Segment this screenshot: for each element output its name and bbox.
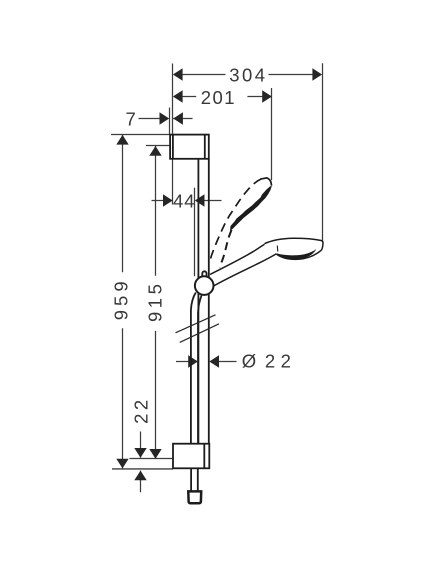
svg-text:22: 22 xyxy=(130,396,151,424)
svg-text:Ø: Ø xyxy=(242,350,256,371)
svg-text:304: 304 xyxy=(229,65,267,86)
svg-text:22: 22 xyxy=(265,350,297,371)
svg-text:915: 915 xyxy=(145,281,166,322)
svg-text:7: 7 xyxy=(126,109,136,130)
svg-text:959: 959 xyxy=(111,277,132,320)
svg-text:44: 44 xyxy=(173,191,196,212)
svg-text:201: 201 xyxy=(201,87,236,108)
